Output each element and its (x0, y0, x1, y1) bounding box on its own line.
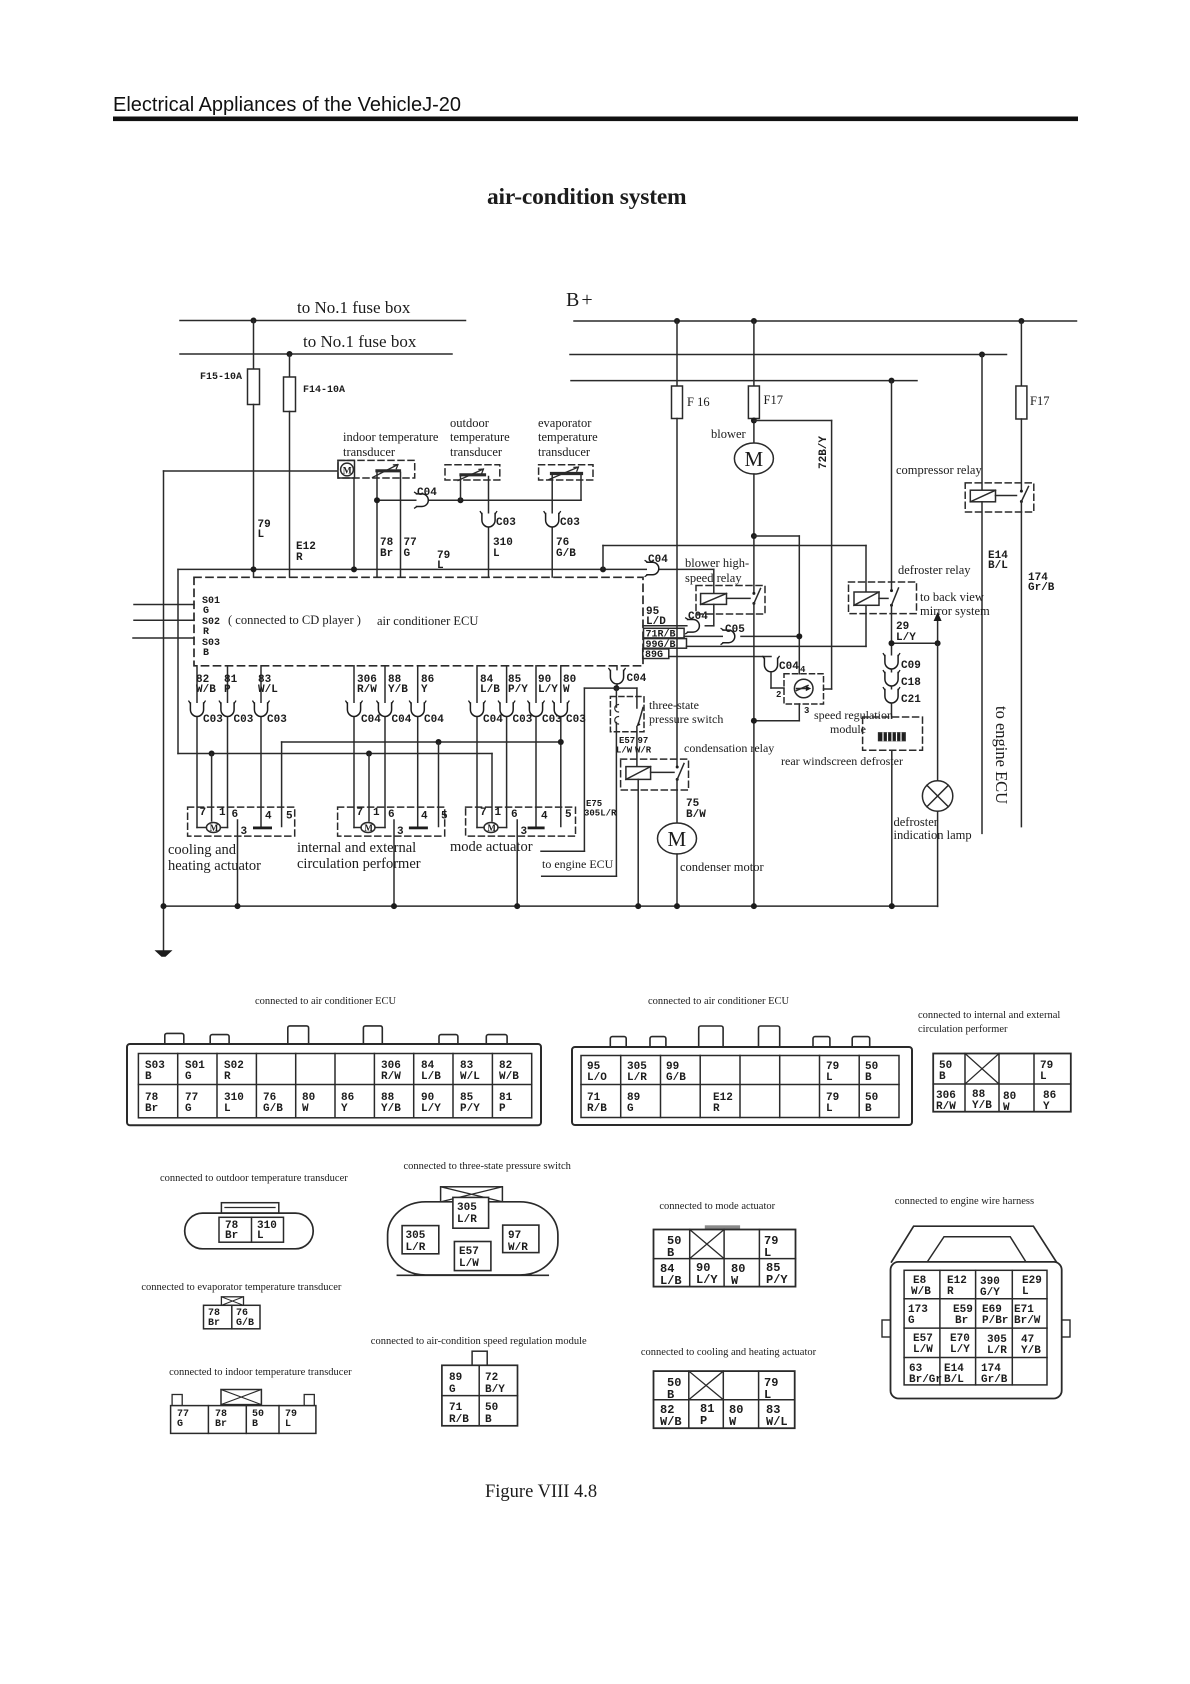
svg-text:72: 72 (485, 1372, 498, 1384)
connector B tabs (610, 1037, 626, 1049)
svg-text:89: 89 (449, 1372, 462, 1384)
air conditioner ECU box (194, 577, 643, 666)
svg-text:C04: C04 (361, 714, 381, 726)
svg-text:F17: F17 (1030, 394, 1049, 408)
svg-text:P/Y: P/Y (508, 684, 528, 696)
ground (163, 906, 165, 951)
wire branch down x616 through pressure switch (615, 688, 617, 707)
svg-text:C04: C04 (424, 714, 444, 726)
svg-text:R: R (203, 627, 209, 638)
wire 310 L (488, 477, 490, 578)
svg-text:connected to outdoor temperatu: connected to outdoor temperature transdu… (160, 1173, 348, 1184)
SECTION_ACTUATORS (161, 666, 938, 909)
svg-text:R: R (224, 1071, 231, 1083)
svg-text:305: 305 (406, 1230, 426, 1242)
wire ECU pin 306 R/W (353, 666, 355, 703)
svg-text:( connected to CD player ): ( connected to CD player ) (228, 613, 361, 627)
svg-text:W: W (563, 684, 570, 696)
fuse F15-10A (253, 321, 255, 370)
svg-text:1: 1 (219, 807, 226, 819)
wire E12 R from F14 down to ECU (289, 412, 291, 578)
wire evaporator right pin (580, 475, 582, 500)
label 89G (643, 649, 669, 659)
svg-text:Br: Br (145, 1103, 158, 1115)
wire bus y=753.5 (178, 753, 492, 755)
svg-text:B: B (939, 1071, 946, 1083)
wire 78 Br (376, 473, 378, 578)
svg-text:temperature: temperature (450, 430, 510, 444)
wire ECU pin 83 W/L (260, 666, 262, 703)
svg-text:W/B: W/B (196, 684, 216, 696)
internal and external circulation performer (338, 807, 445, 836)
svg-text:internal and external: internal and external (297, 840, 416, 856)
svg-text:W: W (729, 1415, 737, 1429)
svg-text:B: B (865, 1103, 872, 1115)
svg-text:C18: C18 (901, 677, 921, 689)
SECTION_TABLES (127, 996, 1071, 1125)
svg-text:G: G (449, 1384, 456, 1396)
svg-text:G: G (203, 606, 209, 617)
svg-text:P/Y: P/Y (766, 1273, 788, 1287)
svg-text:R/B: R/B (449, 1414, 469, 1426)
blower high-speed relay switch (752, 592, 755, 595)
svg-text:L: L (826, 1072, 833, 1084)
svg-text:Br/Gr: Br/Gr (909, 1374, 942, 1386)
SECTION_ECU (133, 381, 990, 907)
svg-text:G: G (185, 1071, 192, 1083)
svg-text:B/W: B/W (686, 809, 706, 821)
svg-text:Br: Br (225, 1230, 238, 1242)
svg-text:6: 6 (511, 809, 518, 821)
wire ECU pin 84 L/B (476, 666, 478, 703)
defroster relay switch (891, 381, 893, 591)
label 99G/B (644, 639, 687, 649)
svg-text:5: 5 (441, 811, 448, 823)
svg-text:G: G (908, 1315, 915, 1327)
svg-text:4: 4 (265, 811, 272, 823)
wire 71R/B with C05 (684, 635, 723, 637)
svg-text:B: B (667, 1388, 674, 1402)
svg-text:L: L (1040, 1071, 1047, 1083)
svg-text:G/B: G/B (263, 1103, 283, 1115)
svg-text:F14-10A: F14-10A (303, 385, 345, 396)
svg-text:M: M (364, 823, 373, 833)
svg-text:G: G (185, 1103, 192, 1115)
svg-text:W/B: W/B (499, 1071, 519, 1083)
svg-text:connected to air conditioner E: connected to air conditioner ECU (255, 996, 397, 1007)
svg-text:C04: C04 (392, 714, 412, 726)
svg-text:3: 3 (804, 706, 809, 716)
thermistor (indoor) (377, 469, 400, 472)
svg-text:W: W (731, 1274, 739, 1288)
wire M ground x354 (353, 478, 355, 569)
wire: B+ bus right 3 (571, 380, 917, 382)
svg-text:L: L (437, 560, 444, 572)
svg-text:C04: C04 (688, 611, 708, 623)
defroster indication lamp (937, 643, 939, 781)
svg-text:97: 97 (508, 1230, 521, 1242)
fuse F14-10A (289, 354, 291, 377)
wire S02 R to CD player (134, 619, 194, 621)
connector B body (572, 1047, 912, 1125)
svg-text:4: 4 (541, 811, 548, 823)
svg-text:L/Y: L/Y (538, 684, 558, 696)
svg-text:P/Y: P/Y (460, 1103, 480, 1115)
svg-text:7: 7 (200, 807, 207, 819)
svg-text:L: L (258, 529, 265, 541)
wire: B+ bus right top (574, 320, 1077, 322)
svg-text:F17: F17 (764, 393, 783, 407)
svg-text:speed regulation: speed regulation (814, 708, 893, 722)
svg-text:305: 305 (457, 1202, 477, 1214)
svg-text:89G: 89G (645, 650, 663, 661)
svg-text:transducer: transducer (450, 445, 503, 459)
svg-text:Y/B: Y/B (972, 1100, 992, 1112)
svg-text:W/L: W/L (258, 684, 278, 696)
svg-text:defroster relay: defroster relay (898, 563, 971, 577)
fuse F17 (blower) (753, 321, 755, 386)
svg-text:G: G (404, 548, 411, 560)
svg-text:Y: Y (1043, 1101, 1050, 1113)
wire 89G to C04 of speed module (669, 656, 771, 658)
connector A body (127, 1044, 541, 1125)
node junction on upper bus (251, 318, 257, 324)
svg-text:Br: Br (215, 1419, 227, 1430)
speed regulation module (784, 674, 824, 704)
svg-text:L: L (224, 1103, 231, 1115)
connector C04 below ECU (616, 666, 618, 671)
three-state pressure switch (610, 697, 644, 732)
svg-text:Br/W: Br/W (1014, 1315, 1041, 1327)
svg-text:R/B: R/B (587, 1103, 607, 1115)
svg-text:F15-10A: F15-10A (200, 372, 242, 383)
svg-text:transducer: transducer (343, 445, 396, 459)
wire S03 B to CD player (133, 637, 194, 639)
svg-text:C03: C03 (513, 714, 533, 726)
svg-text:L: L (493, 548, 500, 560)
svg-text:three-state: three-state (649, 698, 699, 712)
wire blower branch to x799 (754, 535, 799, 537)
svg-text:3: 3 (397, 826, 404, 838)
svg-text:7: 7 (357, 807, 364, 819)
wire 79 L from F15 down to ECU (253, 405, 255, 578)
svg-text:C04: C04 (779, 661, 799, 673)
svg-text:B/Y: B/Y (485, 1384, 505, 1396)
svg-text:97: 97 (638, 736, 649, 746)
svg-text:M: M (210, 823, 219, 833)
svg-text:F 16: F 16 (687, 395, 710, 409)
svg-text:5: 5 (565, 809, 572, 821)
svg-text:C04: C04 (627, 673, 647, 685)
connector A tabs (165, 1033, 184, 1045)
svg-text:P: P (499, 1103, 506, 1115)
svg-text:R/W: R/W (936, 1101, 956, 1113)
svg-text:R/W: R/W (381, 1071, 401, 1083)
svg-text:P: P (700, 1414, 707, 1428)
svg-text:B+: B+ (566, 289, 595, 311)
svg-text:defroster: defroster (894, 815, 939, 829)
svg-text:3: 3 (521, 826, 528, 838)
wire 99G/B loop top y=545 (603, 545, 866, 547)
svg-text:305L/R: 305L/R (584, 809, 617, 819)
svg-text:L/R: L/R (987, 1345, 1007, 1357)
svg-text:B: B (203, 648, 209, 659)
svg-text:blower: blower (711, 427, 747, 441)
svg-text:B: B (485, 1414, 492, 1426)
svg-text:R: R (947, 1286, 954, 1298)
svg-text:L/B: L/B (480, 684, 500, 696)
svg-text:R: R (713, 1103, 720, 1115)
svg-text:rear windscreen defroster: rear windscreen defroster (781, 754, 903, 768)
svg-text:L/Y: L/Y (421, 1103, 441, 1115)
svg-text:C04: C04 (648, 554, 668, 566)
svg-text:L: L (764, 1388, 771, 1402)
svg-text:1: 1 (495, 807, 502, 819)
svg-text:Gr/B: Gr/B (981, 1374, 1008, 1386)
svg-text:mode actuator: mode actuator (450, 839, 533, 855)
svg-text:C21: C21 (901, 694, 921, 706)
svg-text:G/B: G/B (556, 548, 576, 560)
svg-text:Br: Br (380, 548, 393, 560)
svg-text:1: 1 (373, 807, 380, 819)
wire 95 L/D with C04 to relay coil (643, 625, 688, 627)
svg-text:C03: C03 (496, 517, 516, 529)
svg-text:E75: E75 (586, 799, 602, 809)
connector C21 (883, 688, 899, 703)
wire ECU pin 82 W/B (196, 666, 198, 703)
wire S01 G to CD player (134, 604, 194, 606)
wire F16 down to condensation relay (676, 419, 678, 767)
wire 76 G/B (551, 475, 553, 577)
wire 72B/Y branch (754, 420, 832, 422)
svg-text:M: M (745, 447, 764, 471)
svg-text:B: B (145, 1071, 152, 1083)
svg-text:connected to air conditioner E: connected to air conditioner ECU (648, 996, 790, 1007)
svg-text:P/Br: P/Br (982, 1315, 1008, 1327)
svg-text:W/R: W/R (508, 1242, 528, 1254)
svg-text:C03: C03 (267, 714, 287, 726)
svg-text:C03: C03 (234, 714, 254, 726)
label 71R/B (644, 628, 685, 638)
svg-text:connected to indoor temperatur: connected to indoor temperature transduc… (169, 1367, 352, 1378)
svg-text:connected to mode actuator: connected to mode actuator (659, 1201, 775, 1212)
svg-text:L/W: L/W (913, 1344, 933, 1356)
wire thermistor bus y=500 (377, 499, 581, 501)
svg-text:E57: E57 (619, 736, 635, 746)
svg-text:6: 6 (388, 809, 395, 821)
svg-text:mirror system: mirror system (920, 604, 990, 618)
mode actuator (466, 807, 576, 836)
node junctions on right buses (674, 318, 680, 324)
svg-text:W: W (1003, 1102, 1010, 1114)
svg-text:connected to evaporator temper: connected to evaporator temperature tran… (141, 1282, 341, 1293)
condenser motor (658, 823, 697, 854)
wire: to No.1 fuse box (lower left bus) (180, 353, 452, 355)
svg-text:W/B: W/B (911, 1286, 931, 1298)
svg-text:L/Y: L/Y (696, 1273, 718, 1287)
svg-text:M: M (343, 467, 352, 477)
wire bus y=742 (282, 741, 561, 743)
svg-text:Br: Br (955, 1315, 968, 1327)
svg-text:C09: C09 (901, 660, 921, 672)
svg-text:temperature: temperature (538, 430, 598, 444)
svg-text:circulation performer: circulation performer (918, 1024, 1008, 1035)
cooling and heating actuator (188, 807, 295, 836)
svg-text:C03: C03 (203, 714, 223, 726)
svg-text:E57: E57 (459, 1246, 479, 1258)
svg-text:L: L (257, 1230, 264, 1242)
SECTION_TOP (155, 289, 1077, 957)
svg-text:71: 71 (449, 1402, 463, 1414)
wire ECU pin 90 L/Y (535, 666, 537, 703)
compressor relay switch (1020, 490, 1023, 493)
svg-text:connected to internal and exte: connected to internal and external (918, 1010, 1060, 1021)
svg-text:50: 50 (485, 1402, 498, 1414)
svg-text:outdoor: outdoor (450, 416, 490, 430)
svg-text:condensation relay: condensation relay (684, 741, 774, 755)
svg-text:W/L: W/L (766, 1415, 788, 1429)
svg-text:L: L (764, 1246, 771, 1260)
svg-text:G/B: G/B (666, 1072, 686, 1084)
svg-text:C03: C03 (566, 714, 586, 726)
svg-text:compressor relay: compressor relay (896, 463, 982, 477)
connector C18 (883, 671, 899, 686)
svg-text:transducer: transducer (538, 445, 591, 459)
SECTION_MIDDLE (541, 643, 1011, 906)
wire ECU pin 85 P/Y (506, 666, 508, 703)
svg-text:to engine ECU: to engine ECU (542, 857, 614, 871)
wire left drop x=178 to ground bus (177, 569, 179, 753)
svg-text:air-condition system: air-condition system (487, 184, 687, 210)
svg-text:C03: C03 (560, 517, 580, 529)
wire 99G/B (687, 645, 867, 647)
condensation relay switch (676, 766, 679, 769)
svg-text:G: G (627, 1103, 634, 1115)
node junction on lower bus (287, 351, 293, 357)
svg-text:connected to three-state press: connected to three-state pressure switch (404, 1161, 572, 1172)
svg-text:M: M (668, 827, 687, 851)
svg-text:5: 5 (286, 811, 293, 823)
svg-text:L/O: L/O (587, 1072, 607, 1084)
svg-text:to No.1 fuse box: to No.1 fuse box (303, 332, 417, 351)
wire 77 G (400, 473, 402, 578)
svg-text:to engine ECU: to engine ECU (992, 706, 1011, 804)
wire condenser motor feed (676, 779, 678, 823)
svg-text:2: 2 (776, 690, 781, 700)
svg-text:Y: Y (341, 1103, 348, 1115)
svg-text:B: B (667, 1246, 674, 1260)
svg-text:module: module (830, 722, 866, 736)
wire ECU pin 81 P (227, 666, 229, 703)
svg-text:L/R: L/R (627, 1072, 647, 1084)
wire: to No.1 fuse box (upper left bus) (180, 320, 466, 322)
arrow to mirror system (937, 619, 939, 643)
wire branch right to condensation relay coil (616, 687, 637, 689)
svg-text:G: G (177, 1419, 183, 1430)
svg-text:air conditioner ECU: air conditioner ECU (377, 614, 478, 628)
svg-text:L/B: L/B (421, 1071, 441, 1083)
svg-text:L/B: L/B (660, 1274, 682, 1288)
svg-text:7: 7 (480, 807, 487, 819)
svg-text:4: 4 (421, 811, 428, 823)
svg-text:W/B: W/B (660, 1415, 682, 1429)
wire 79L horizontal bus y=569 (178, 568, 714, 570)
svg-text:connected to cooling and heati: connected to cooling and heating actuato… (641, 1347, 817, 1358)
ground bus (164, 905, 938, 907)
svg-text:C04: C04 (417, 487, 437, 499)
svg-text:L/R: L/R (457, 1214, 477, 1226)
svg-text:L/R: L/R (406, 1242, 426, 1254)
SECTION_BOTTOM (141, 1161, 1070, 1433)
svg-text:indoor temperature: indoor temperature (343, 430, 439, 444)
svg-text:L/W: L/W (459, 1258, 479, 1270)
svg-text:circulation performer: circulation performer (297, 856, 421, 872)
svg-text:L/Y: L/Y (950, 1344, 970, 1356)
svg-text:C04: C04 (483, 714, 503, 726)
svg-text:to No.1 fuse box: to No.1 fuse box (297, 298, 411, 317)
svg-text:M: M (487, 823, 496, 833)
svg-text:L/Y: L/Y (896, 632, 916, 644)
svg-text:L: L (285, 1419, 291, 1430)
fuse F16 (676, 321, 678, 386)
wire ECU pin 86 Y (417, 666, 419, 703)
svg-text:G/Y: G/Y (980, 1287, 1000, 1299)
svg-text:C05: C05 (725, 624, 745, 636)
svg-text:6: 6 (232, 809, 239, 821)
wire ECU pin 80 W (560, 666, 562, 703)
svg-text:to back view: to back view (920, 590, 984, 604)
wire E75 branch left (584, 687, 616, 689)
fuse F17 (right) (1020, 321, 1022, 386)
header rule (113, 117, 1078, 122)
svg-text:72B/Y: 72B/Y (818, 436, 830, 469)
connector C04 on y=569 (645, 561, 659, 577)
svg-text:L: L (826, 1103, 833, 1115)
svg-text:Y/B: Y/B (381, 1103, 401, 1115)
svg-text:cooling and: cooling and (168, 842, 237, 858)
svg-text:W/L: W/L (460, 1071, 480, 1083)
svg-text:B: B (252, 1419, 258, 1430)
svg-text:Br: Br (208, 1318, 220, 1329)
svg-text:W/R: W/R (635, 746, 652, 756)
wire left ground drop from transducer feed (163, 471, 165, 906)
svg-text:heating actuator: heating actuator (168, 858, 261, 874)
svg-text:Figure VIII 4.8: Figure VIII 4.8 (485, 1482, 597, 1502)
svg-text:B/L: B/L (988, 560, 1008, 572)
wire ECU pin 88 Y/B (384, 666, 386, 703)
svg-text:Electrical Appliances of the V: Electrical Appliances of the VehicleJ-20 (113, 94, 461, 116)
svg-text:indication lamp: indication lamp (894, 828, 972, 842)
svg-text:P: P (224, 684, 231, 696)
svg-text:condenser motor: condenser motor (680, 860, 764, 874)
svg-text:G/B: G/B (236, 1317, 254, 1329)
svg-text:L: L (1022, 1286, 1029, 1298)
svg-text:connected to air-condition spe: connected to air-condition speed regulat… (371, 1336, 587, 1347)
svg-text:W: W (302, 1103, 309, 1115)
svg-text:Y/B: Y/B (388, 684, 408, 696)
svg-text:3: 3 (241, 826, 248, 838)
svg-text:L/W: L/W (616, 746, 633, 756)
connector C09 (883, 654, 899, 669)
svg-text:Gr/B: Gr/B (1028, 582, 1055, 594)
speed module pin 3 wire (798, 704, 800, 721)
svg-text:blower high-: blower high- (685, 556, 749, 570)
connector C04 on y=500 (415, 492, 429, 508)
svg-text:B: B (865, 1072, 872, 1084)
wire: B+ bus right 2 (570, 354, 1007, 356)
svg-text:Y: Y (421, 684, 428, 696)
svg-text:B/L: B/L (944, 1374, 964, 1386)
